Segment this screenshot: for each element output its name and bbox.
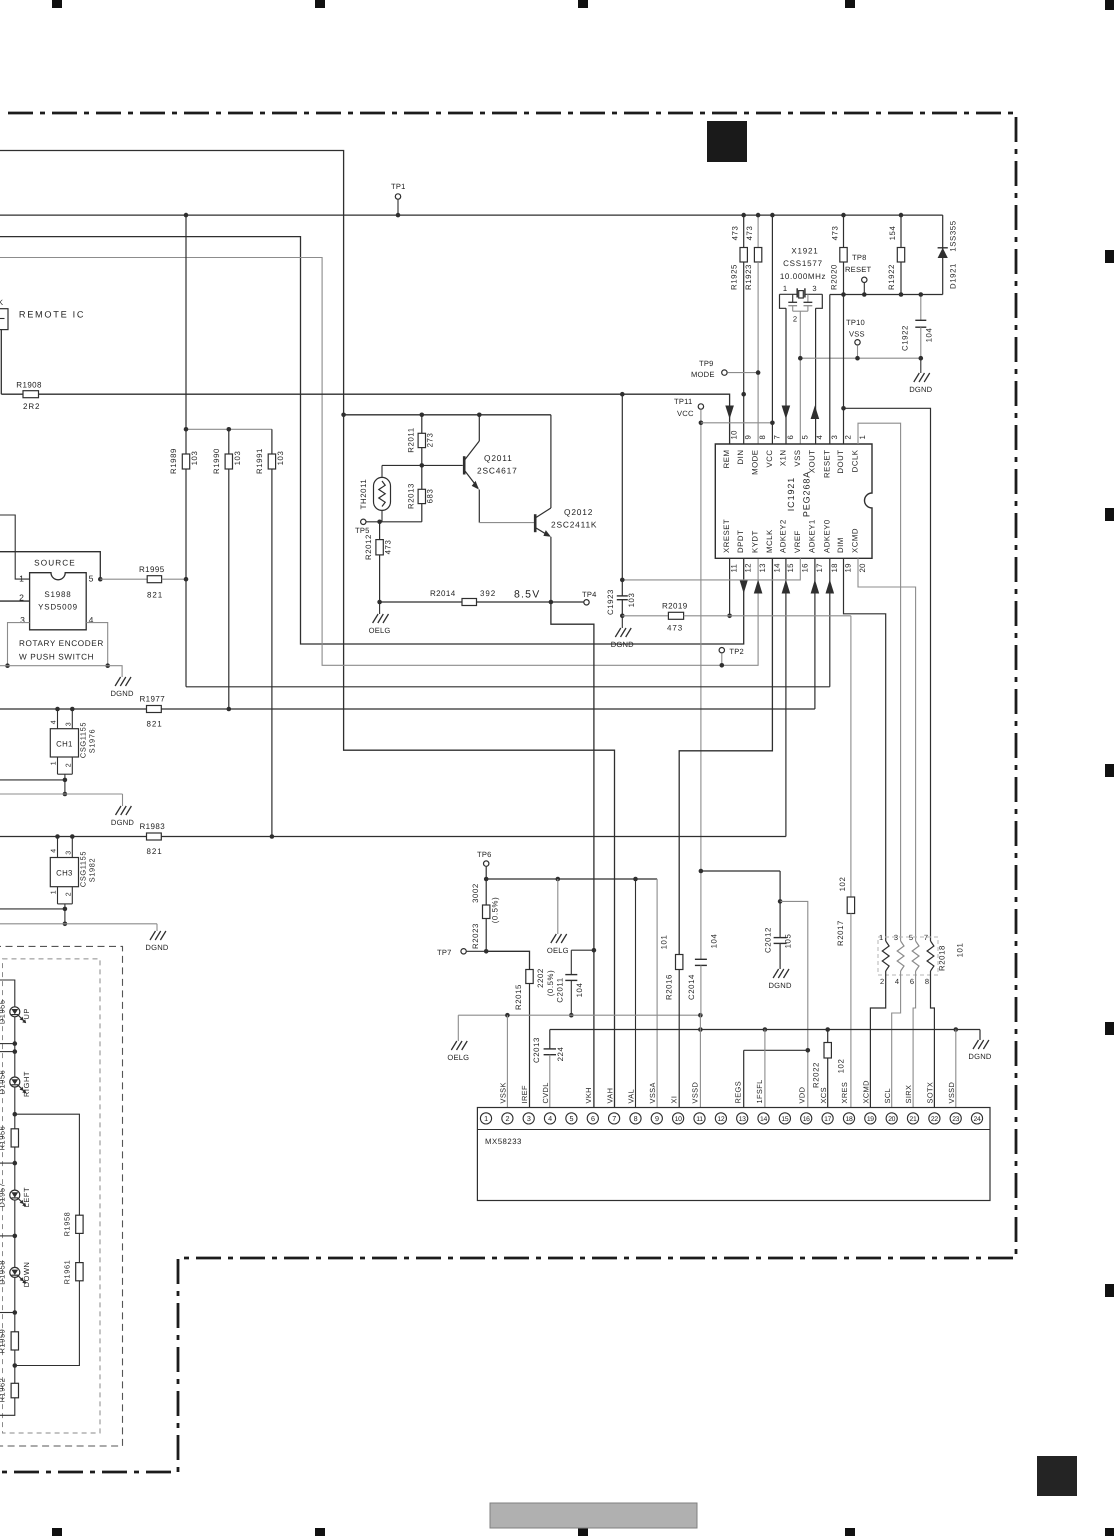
svg-text:6: 6 (591, 1114, 595, 1123)
svg-text:1: 1 (858, 435, 867, 440)
svg-text:2: 2 (506, 1114, 510, 1123)
wire S1988 pin3 (8, 623, 30, 666)
svg-text:(0.5%): (0.5%) (491, 897, 500, 924)
svg-text:IC1921: IC1921 (786, 477, 796, 511)
svg-text:D1958: D1958 (0, 1260, 7, 1285)
svg-text:18: 18 (830, 563, 839, 572)
svg-text:R2022: R2022 (812, 1062, 821, 1088)
svg-text:PEG268A: PEG268A (802, 471, 812, 517)
svg-text:R1977: R1977 (140, 695, 166, 704)
svg-text:3002: 3002 (471, 883, 480, 903)
svg-text:3: 3 (894, 933, 898, 942)
svg-text:TP2: TP2 (729, 647, 744, 656)
svg-text:R2023: R2023 (471, 923, 480, 949)
wire TP5 node row (363, 521, 422, 523)
svg-text:7: 7 (612, 1114, 616, 1123)
wire R2018-4 to SOTX pin22 (931, 971, 935, 1113)
svg-text:VAH: VAH (605, 1088, 614, 1104)
svg-text:D1957: D1957 (0, 1183, 7, 1208)
wire S1988 pin5 net (0, 552, 100, 580)
svg-text:TP10: TP10 (846, 318, 865, 327)
resistor R1923 473 (MODE pull-up) (757, 215, 759, 247)
svg-text:R1995: R1995 (139, 565, 165, 574)
connector pin 19 XCMD (865, 1113, 876, 1124)
resistor R1922 154 (900, 215, 902, 247)
svg-text:5: 5 (800, 435, 809, 440)
svg-text:3: 3 (66, 850, 73, 855)
connector pin 8 VAL (630, 1113, 641, 1124)
svg-text:REM: REM (722, 450, 731, 469)
wire bank top row (186, 428, 272, 430)
capacitor C1922 104 (920, 295, 922, 321)
arrow into KYDT (754, 580, 763, 594)
svg-text:5: 5 (909, 933, 913, 942)
svg-text:KYDT: KYDT (751, 530, 760, 553)
resistor R1956 (11, 1129, 18, 1147)
node on 8.5V rail to Q2011 branch (341, 413, 346, 418)
wire CH3 common row (0, 908, 65, 910)
svg-text:R2013: R2013 (407, 483, 416, 509)
svg-text:104: 104 (575, 983, 584, 998)
wire CH1 ground row (0, 793, 123, 795)
svg-text:YSD5009: YSD5009 (38, 603, 78, 612)
wire DCLK pin1 (858, 423, 901, 941)
svg-text:OELG: OELG (369, 626, 391, 635)
svg-text:VSSD: VSSD (947, 1082, 956, 1104)
svg-text:154: 154 (888, 226, 897, 241)
wire TP6 row (486, 878, 657, 880)
resistor R1990 103 (228, 429, 230, 454)
R2018 element 3 (912, 941, 919, 971)
resistor R1908 2R2 (23, 391, 39, 398)
svg-text:XRES: XRES (840, 1082, 849, 1104)
wire DPDT net from left (0, 237, 744, 644)
svg-text:473: 473 (831, 226, 840, 241)
svg-text:17: 17 (815, 563, 824, 572)
svg-text:XCS: XCS (819, 1087, 828, 1103)
svg-text:W PUSH SWITCH: W PUSH SWITCH (19, 653, 94, 662)
wire VSSD pin11 drop (699, 1015, 701, 1113)
resistor R2015 2202 (0.5%) (526, 970, 533, 984)
svg-text:3: 3 (527, 1114, 531, 1123)
svg-text:473: 473 (667, 624, 683, 633)
wire and taps below D1955 (14, 1017, 16, 1077)
wire S1988 pin4 (86, 623, 108, 666)
arrow into DPDT (739, 580, 748, 594)
capacitor C2014 104 (700, 871, 702, 959)
R2018 element 1 (882, 941, 889, 971)
svg-text:2: 2 (66, 892, 73, 897)
wire to VDD vertical (780, 901, 808, 1112)
svg-text:22: 22 (931, 1116, 938, 1123)
svg-text:DIN: DIN (736, 450, 745, 465)
wire Q2011 emitter to Q2012 base (479, 522, 534, 524)
transistor Q2011 2SC4617 (463, 456, 466, 474)
resistor R1925 473 (DIN pull-up) (743, 215, 745, 247)
svg-text:3: 3 (66, 722, 73, 727)
svg-text:10: 10 (730, 430, 739, 440)
wire VSSK pin2 drop (506, 1015, 508, 1113)
arrow out of XOUT (811, 406, 820, 420)
resistor R1959 (11, 1332, 18, 1350)
resistor R2020 473 (843, 215, 845, 247)
wire REMOTE IC to R1908 (0, 330, 2, 395)
wire VCC rail (0, 214, 943, 216)
svg-text:473: 473 (731, 226, 740, 241)
svg-text:MODE: MODE (751, 450, 760, 475)
svg-text:R1922: R1922 (887, 264, 896, 290)
svg-text:224: 224 (556, 1047, 565, 1062)
arrow ADKEY1 (811, 580, 820, 594)
svg-text:VSS: VSS (849, 330, 865, 339)
svg-text:20: 20 (888, 1116, 895, 1123)
svg-text:XRESET: XRESET (722, 519, 731, 553)
svg-text:VKH: VKH (584, 1087, 593, 1103)
resistor network R2018 101 (878, 937, 938, 975)
svg-text:MCLK: MCLK (765, 529, 774, 553)
wire ADKEY1 pin17 to R1977 row (814, 558, 816, 709)
svg-text:2SC4617: 2SC4617 (477, 466, 518, 476)
ground OELG under R2012 (379, 602, 381, 614)
svg-text:IREF: IREF (520, 1085, 529, 1104)
svg-text:1FSFL: 1FSFL (755, 1079, 764, 1103)
resistor R1989 103 (182, 454, 189, 469)
svg-text:VCC: VCC (765, 450, 774, 468)
svg-text:473: 473 (384, 540, 393, 555)
svg-text:13: 13 (758, 563, 767, 572)
svg-text:D1956: D1956 (0, 1070, 7, 1095)
svg-text:DGND: DGND (611, 640, 634, 649)
resistor R2013 683 (421, 465, 423, 489)
registration marks (52, 0, 62, 8)
svg-text:REMOTE IC: REMOTE IC (19, 310, 85, 320)
svg-text:C1922: C1922 (901, 325, 910, 351)
wire MCLK pin14 to XI (679, 558, 772, 954)
connector pin 22 SOTX (929, 1113, 940, 1124)
svg-text:R1959: R1959 (0, 1329, 7, 1354)
svg-text:821: 821 (147, 847, 163, 856)
ground DGND under C2012 (773, 969, 779, 978)
svg-text:K: K (0, 298, 3, 307)
wire pullup bank vertical from VCC rail (185, 215, 187, 454)
svg-text:D1955: D1955 (0, 999, 7, 1024)
svg-text:102: 102 (838, 877, 847, 892)
svg-text:R2018: R2018 (938, 945, 947, 971)
svg-text:2: 2 (66, 763, 73, 768)
svg-text:16: 16 (800, 563, 809, 572)
svg-text:10: 10 (675, 1116, 682, 1123)
svg-text:1SS355: 1SS355 (949, 220, 958, 251)
wire CH3 ground row (0, 923, 157, 925)
connector pin 9 VSSA (651, 1113, 662, 1124)
transistor Q2012 2SC2411K (534, 514, 537, 532)
svg-text:R1925: R1925 (730, 264, 739, 290)
wire Q2012 emitter / 8.5V net (550, 537, 552, 602)
svg-text:8: 8 (925, 977, 929, 986)
svg-text:2: 2 (880, 977, 884, 986)
svg-text:DPDT: DPDT (736, 530, 745, 553)
svg-text:R1983: R1983 (140, 822, 166, 831)
svg-text:(0.5%): (0.5%) (546, 970, 555, 997)
connector pin 23 VSSD (950, 1113, 961, 1124)
svg-text:102: 102 (837, 1059, 846, 1074)
wire REM net (1, 394, 729, 444)
svg-text:2SC2411K: 2SC2411K (551, 520, 597, 530)
svg-text:4: 4 (51, 848, 58, 853)
svg-text:R1990: R1990 (212, 448, 221, 474)
svg-text:4: 4 (548, 1114, 552, 1123)
svg-text:20: 20 (858, 563, 867, 573)
connector pin 15 (779, 1113, 790, 1124)
wire RESET to IC pin3 (829, 295, 831, 445)
wire 1FSFL pin14 drop (764, 1030, 766, 1113)
svg-text:821: 821 (147, 591, 163, 600)
svg-text:CSS1577: CSS1577 (783, 259, 823, 268)
svg-text:DOUT: DOUT (836, 450, 845, 474)
wire TP11/VCC vertical (700, 410, 702, 872)
wire VCC to IC pin7 (771, 215, 773, 444)
ground DGND under C1923 (621, 616, 623, 628)
svg-text:S1988: S1988 (44, 590, 71, 599)
svg-text:VSSD: VSSD (691, 1082, 700, 1104)
svg-text:1: 1 (879, 933, 883, 942)
svg-text:R1962: R1962 (0, 1378, 7, 1403)
svg-text:CSG1155: CSG1155 (79, 851, 88, 887)
wire VSSD pin23 drop (955, 1030, 957, 1113)
wire crystal pin3 to IC XOUT (815, 308, 817, 444)
R2018 element 2 (897, 941, 904, 971)
svg-text:C2012: C2012 (764, 927, 773, 953)
svg-text:5: 5 (570, 1114, 574, 1123)
wire OELG row y1015 (458, 1014, 700, 1016)
capacitor C2012 105 (779, 901, 781, 937)
svg-text:VCC: VCC (677, 409, 694, 418)
ground DGND under S1988 (115, 677, 121, 686)
svg-text:11: 11 (696, 1116, 703, 1123)
svg-text:REGS: REGS (733, 1081, 742, 1104)
wire RESET row (830, 294, 943, 296)
svg-text:SOURCE: SOURCE (34, 559, 76, 568)
svg-text:103: 103 (627, 593, 636, 608)
svg-text:VSSK: VSSK (499, 1082, 508, 1103)
svg-text:CH3: CH3 (56, 869, 73, 878)
arrow ADKEY0 (826, 580, 835, 594)
capacitor C1923 103 (621, 394, 623, 595)
svg-text:MX58233: MX58233 (485, 1137, 522, 1146)
node VCC rail / pullup bank feed (184, 213, 189, 218)
svg-text:R1958: R1958 (63, 1212, 72, 1237)
svg-text:101: 101 (956, 943, 965, 958)
svg-text:C2011: C2011 (556, 977, 565, 1002)
svg-text:UP: UP (22, 1008, 31, 1019)
svg-text:2R2: 2R2 (23, 402, 40, 411)
svg-text:5: 5 (89, 574, 94, 584)
svg-text:10.000MHz: 10.000MHz (780, 272, 826, 281)
ground DGND under C1922 (920, 358, 922, 373)
svg-text:15: 15 (781, 1116, 788, 1123)
ground OELG stub on TP6 row (557, 879, 559, 934)
test point TP5 (361, 519, 366, 524)
svg-text:4: 4 (51, 720, 58, 725)
svg-text:CSG1155: CSG1155 (79, 722, 88, 758)
svg-text:1: 1 (51, 890, 58, 895)
svg-text:R2019: R2019 (662, 602, 688, 611)
svg-text:D1921: D1921 (949, 263, 958, 289)
connector pin 1 (480, 1113, 491, 1124)
svg-text:6: 6 (786, 435, 795, 440)
svg-text:R2012: R2012 (364, 534, 373, 560)
svg-text:24: 24 (974, 1116, 981, 1123)
connector pin 17 XCS (822, 1113, 833, 1124)
svg-text:VDD: VDD (798, 1087, 807, 1104)
wire ground row under S1988 (0, 665, 108, 667)
svg-text:18: 18 (846, 1116, 853, 1123)
svg-text:TP5: TP5 (355, 526, 370, 535)
connector pin 4 CVDL (544, 1113, 555, 1124)
svg-text:Q2011: Q2011 (484, 453, 513, 463)
svg-text:19: 19 (844, 563, 853, 572)
wire VSSA pin9 drop (656, 879, 658, 1113)
LED D1957 LEFT (10, 1190, 20, 1200)
svg-text:7: 7 (772, 435, 781, 440)
svg-text:683: 683 (426, 489, 435, 504)
svg-text:S1976: S1976 (88, 729, 97, 753)
svg-text:104: 104 (710, 934, 719, 949)
svg-text:VSSA: VSSA (648, 1082, 657, 1103)
svg-text:VSS: VSS (793, 450, 802, 467)
wire DOUT/RESET net vertical (843, 295, 845, 445)
svg-text:DCLK: DCLK (851, 449, 860, 472)
wire LED chain exit (0, 1398, 15, 1416)
svg-text:9: 9 (655, 1114, 659, 1123)
svg-text:DGND: DGND (769, 981, 792, 990)
wire TP7 row to R2015 (486, 951, 529, 969)
svg-text:DGND: DGND (111, 689, 134, 698)
svg-text:ADKEY0: ADKEY0 (822, 519, 831, 553)
black square marker top (707, 121, 747, 162)
resistor R2017 102 on XRES line (847, 897, 854, 914)
svg-text:1: 1 (783, 284, 787, 293)
diode D1921 1SS355 (942, 215, 944, 294)
wire S1988 pin2 (0, 600, 30, 602)
arrow ADKEY2 (782, 580, 791, 594)
svg-text:RESET: RESET (822, 450, 831, 479)
svg-text:R1956: R1956 (0, 1126, 7, 1151)
svg-text:12: 12 (717, 1116, 724, 1123)
wire ADKEY0 row (186, 686, 830, 688)
connector pin 16 VDD (801, 1113, 812, 1124)
connector pin 7 VAH (609, 1113, 620, 1124)
resistor R2014 392 (380, 601, 462, 603)
wire XRES net down right (850, 616, 852, 897)
wire DGND bus y1029 (550, 1029, 980, 1031)
svg-text:R1961: R1961 (63, 1260, 72, 1285)
svg-text:R2016: R2016 (665, 974, 674, 1000)
svg-text:DOWN: DOWN (22, 1261, 31, 1287)
svg-text:C1923: C1923 (606, 589, 615, 615)
large dark square bottom right (1037, 1456, 1077, 1496)
arrow into REM (725, 406, 734, 420)
dashed box inner (3, 959, 101, 1433)
wire S1988 pin1 (0, 515, 30, 579)
svg-text:TP11: TP11 (674, 397, 692, 406)
svg-text:X1921: X1921 (791, 247, 818, 256)
connector pin 11 VSSD (694, 1113, 705, 1124)
wire KYDT net from left (0, 258, 758, 666)
svg-text:R1923: R1923 (744, 264, 753, 290)
connector pin 14 1FSFL (758, 1113, 769, 1124)
svg-text:105: 105 (784, 934, 793, 949)
svg-text:R2011: R2011 (407, 427, 416, 452)
svg-text:XI: XI (669, 1096, 678, 1104)
svg-text:1: 1 (51, 761, 58, 766)
svg-text:11: 11 (730, 564, 739, 573)
svg-text:DGND: DGND (968, 1052, 991, 1061)
connector pin 10 XI (673, 1113, 684, 1124)
wire branch to R1958/R1961 (15, 1114, 80, 1215)
svg-text:101: 101 (660, 935, 669, 950)
capacitor C2011 104 (571, 949, 594, 951)
svg-text:OELG: OELG (547, 946, 569, 955)
svg-text:DGND: DGND (909, 385, 932, 394)
wire below D1956 / branch node (14, 1087, 16, 1129)
svg-text:TP9: TP9 (699, 359, 714, 368)
connector pin 3 IREF (523, 1113, 534, 1124)
ground DGND right (979, 1030, 981, 1041)
svg-text:SOTX: SOTX (926, 1082, 935, 1104)
svg-text:RIGHT: RIGHT (22, 1071, 31, 1097)
svg-text:1: 1 (19, 574, 24, 584)
svg-text:R2020: R2020 (830, 264, 839, 290)
svg-text:19: 19 (867, 1116, 874, 1123)
svg-text:12: 12 (744, 563, 753, 572)
svg-text:TH2011: TH2011 (359, 479, 368, 510)
wire 8.5V rail top-left (0, 151, 615, 1113)
svg-text:CH1: CH1 (56, 740, 73, 749)
ground DGND under CH1 (116, 806, 122, 815)
resistor R1961 (76, 1263, 83, 1281)
svg-text:XOUT: XOUT (807, 450, 816, 474)
wire below D1958 (14, 1277, 16, 1331)
wire DOUT row to R2018 (844, 408, 931, 941)
connector pin 6 VKH (587, 1113, 598, 1124)
svg-text:C2013: C2013 (532, 1037, 541, 1063)
svg-text:VREF: VREF (793, 530, 802, 553)
connector pin 18 XRES (843, 1113, 854, 1124)
svg-text:R2017: R2017 (836, 920, 845, 946)
wire XRESET pin11 (729, 558, 731, 616)
wire R2018-3 to SIRX pin21 (913, 971, 916, 1113)
svg-text:Q2012: Q2012 (564, 507, 593, 517)
svg-text:1: 1 (484, 1114, 488, 1123)
svg-text:8: 8 (634, 1114, 638, 1123)
svg-text:16: 16 (803, 1116, 810, 1123)
svg-text:S1982: S1982 (88, 858, 97, 882)
svg-text:103: 103 (276, 451, 285, 466)
connector pin 21 SIRX (907, 1113, 918, 1124)
resistor R2022 102 on XCS line (827, 1030, 829, 1043)
capacitor C2013 224 (549, 1030, 551, 1049)
svg-text:21: 21 (910, 1116, 917, 1123)
LED D1958 DOWN (10, 1267, 20, 1277)
svg-text:R1989: R1989 (169, 448, 178, 474)
switch S1982 CSG1155 CH3 (55, 834, 60, 839)
svg-text:VAL: VAL (627, 1089, 636, 1104)
svg-text:15: 15 (786, 563, 795, 573)
resistor R2023 3002 (0.5%) (485, 879, 487, 905)
svg-text:RESET: RESET (845, 265, 871, 274)
svg-text:R1908: R1908 (16, 381, 42, 390)
